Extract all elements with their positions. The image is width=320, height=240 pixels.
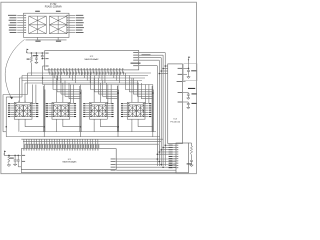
display DS2 right pins with labels	[70, 103, 74, 105]
op IC3 outline	[168, 64, 183, 144]
junction dots on column wires upper	[80, 92, 82, 94]
display DS4 bottom stubs	[131, 119, 133, 121]
VCC symbol (IC3 supply)	[189, 57, 191, 58]
wire VCC to IC1 VCC pin	[3, 154, 5, 155]
IC1 GND pin label	[22, 161, 25, 162]
junction at R2 top	[8, 155, 10, 157]
resistor R2	[8, 155, 10, 163]
display DS4 digit cell a	[129, 105, 136, 117]
connector P2 outline	[176, 143, 189, 173]
display DS3 outline	[90, 102, 108, 119]
display DS3 top stubs	[93, 101, 95, 103]
C1 value label	[33, 55, 39, 56]
display detail digit cell 2 (14-segment)	[49, 16, 67, 33]
IC3 GND pin	[183, 73, 188, 75]
display DS3 bottom stub wires	[93, 121, 95, 132]
display DS3 right pins with labels	[107, 103, 111, 105]
ground below C1	[35, 61, 38, 64]
IC2 VCC net label bottom right	[131, 63, 141, 64]
display DS1 digit cell a	[16, 105, 23, 117]
digit select drop wires to displays	[56, 78, 58, 101]
display detail right pins 9-16 with labels	[69, 14, 75, 16]
C6 value label	[187, 163, 192, 164]
IC3 OSC1 pin	[183, 92, 187, 94]
display detail symbol DS outline	[24, 13, 70, 37]
horizontal segment bus wires	[28, 72, 152, 74]
display DS1 bottom stubs	[18, 119, 20, 121]
capacitor C4	[17, 155, 19, 160]
display DS3 left pins with labels	[86, 103, 90, 105]
svg-text:P-762: P-762	[50, 3, 57, 6]
IC3 left pins to SPI bus	[165, 65, 168, 67]
ground below C5	[187, 76, 190, 79]
SPI bus jogs into P2	[165, 144, 173, 146]
display detail DIG1 label	[56, 11, 61, 12]
IC2 left pin VCC label	[45, 53, 48, 54]
crystal Y1 label	[188, 88, 195, 89]
svg-text:PIC16C54: PIC16C54	[170, 121, 180, 123]
callout arrow from detail symbol to display DS1	[5, 40, 24, 98]
IC3 MCLR pin	[183, 81, 186, 83]
display DS2 outline	[52, 102, 70, 119]
junction node at IC2 VCC pin	[42, 52, 44, 54]
display detail bottom DIG common pins and rail	[37, 37, 39, 40]
display DS4 bottom stub wires	[131, 121, 133, 132]
VCC symbol (IC1 supply)	[4, 151, 6, 152]
junction dots SPI bus to IC1 wires	[157, 158, 159, 160]
ground below C3	[13, 163, 16, 166]
GND rail into P2	[176, 172, 188, 174]
segment wire bundles between displays	[43, 86, 45, 132]
ground below C6	[190, 164, 193, 167]
display DS2 bottom stubs	[56, 119, 58, 121]
IC2 bottom pins comb	[48, 70, 50, 72]
display DS4 left pins with labels	[124, 103, 128, 105]
capacitor C6	[190, 159, 193, 161]
IC2 pin drop wires to bus	[48, 72, 50, 73]
ground below R2	[7, 164, 11, 167]
display DS4 top stubs	[131, 101, 133, 103]
lower bus rails	[20, 131, 156, 133]
schematic border frame	[1, 2, 197, 174]
OSC2 cap label	[192, 103, 197, 104]
IC3 VDD pin	[183, 67, 186, 69]
wire IC3 GND down	[186, 73, 188, 75]
resistor R1	[30, 53, 32, 57]
IC1 VCC pin label	[22, 155, 25, 156]
op IC2 outline	[45, 51, 139, 70]
display DS2 bottom stub wires	[56, 121, 58, 132]
VCC symbol (IC2 supply)	[27, 49, 29, 50]
IC1 feed rails	[21, 138, 163, 140]
display DS1 outline	[14, 102, 32, 119]
IC3 OSC2 pin	[183, 101, 187, 103]
display DS1 bottom stub wires	[18, 121, 20, 132]
display DS3 digit cell a	[91, 105, 98, 117]
IC2 DOUT net label	[142, 54, 151, 55]
IC1 ISET pin wire	[17, 163, 19, 167]
bus left end corner wires down to DS1	[27, 73, 29, 95]
display DS3 digit cell b	[99, 105, 106, 117]
GND rail under IC1	[20, 170, 22, 173]
IC2 left pin GND label	[45, 58, 48, 59]
wire ISET down to bus	[42, 66, 44, 85]
far left column wire	[5, 97, 7, 137]
pull-up resistor R3	[189, 142, 192, 144]
wire IC2 GND pin	[42, 58, 45, 60]
R1 value label	[27, 59, 30, 60]
display DS2 digit cell a	[54, 105, 61, 117]
staircase fan wires into bundles	[52, 73, 54, 90]
junction node at R1 top	[31, 52, 33, 54]
display detail digit cell 1 (14-segment)	[29, 16, 47, 33]
riser wires to display right pins	[32, 85, 34, 104]
R2 value label	[10, 158, 14, 159]
junction at C3 top	[14, 155, 16, 157]
display DS4 outline	[127, 102, 145, 119]
op IC1 outline	[21, 149, 116, 170]
IC2 right pins DIN CLK CS DOUT with labels	[139, 52, 166, 54]
display DS3 bottom stubs	[93, 119, 95, 121]
IC1 top pins comb	[23, 139, 25, 149]
display DS1 left pins with labels	[11, 103, 15, 105]
connector P2 pins with net labels	[173, 144, 176, 146]
junction node at C1 top	[36, 52, 38, 54]
capacitor C3	[14, 155, 16, 160]
IC1 right pins DIN CLK CS wires to P2	[116, 158, 176, 160]
junction dots on column wires	[6, 126, 8, 128]
wire VCC to IC2 VCC pin	[27, 52, 45, 54]
SPI bus vertical wires to lower right	[164, 53, 166, 145]
display DS1 right pins with labels	[32, 103, 36, 105]
OSC1 cap label	[192, 93, 197, 94]
capacitor C1	[35, 53, 37, 58]
junction at C4 top	[18, 155, 20, 157]
IC2 left pin ISET	[43, 65, 45, 67]
bypass group box	[184, 64, 197, 81]
display DS1 top stubs	[18, 101, 20, 103]
display DS4 right pins with labels	[145, 103, 149, 105]
display DS4 digit cell b	[137, 105, 144, 117]
display detail DIG0 label	[35, 11, 40, 12]
display DS1 digit cell b	[24, 105, 31, 117]
wire VCC to VDD	[188, 60, 190, 69]
capacitor C5	[188, 68, 190, 70]
capacitor C2 at IC2 pin	[41, 53, 43, 56]
digit rail wire y84.5	[43, 84, 153, 86]
display DS2 digit cell b	[62, 105, 69, 117]
display DS2 left pins with labels	[48, 103, 52, 105]
SPI bus vertical wires lower section	[164, 145, 166, 166]
display DS2 top stubs	[56, 101, 58, 103]
crystal circuit OSC2	[187, 101, 189, 103]
crystal circuit OSC1	[187, 92, 189, 94]
display detail left pins 1-8 with labels	[17, 14, 23, 16]
C5 value label	[191, 70, 196, 71]
